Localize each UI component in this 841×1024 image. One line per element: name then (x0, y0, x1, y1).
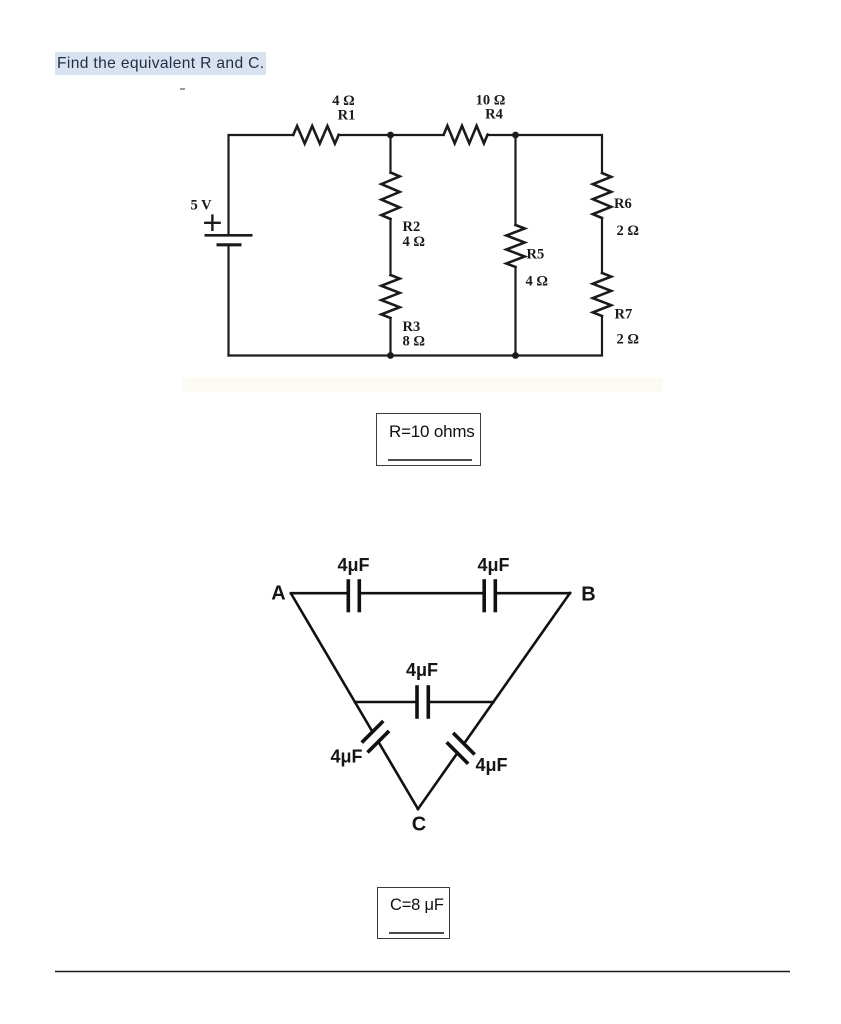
wire R4 to top-right corner (488, 135, 602, 173)
svg-text:R5: R5 (527, 247, 545, 263)
resistor R7 (593, 273, 611, 316)
answer underline R box (388, 459, 472, 461)
wire node A top to R2 (389, 135, 391, 173)
resistor R6 (593, 173, 611, 218)
wire C4 to vertex C (379, 743, 418, 810)
wire R6 to R7 (601, 218, 603, 273)
svg-text:C: C (412, 814, 426, 836)
capacitor C1 plates (348, 581, 359, 611)
svg-text:8 Ω: 8 Ω (403, 334, 426, 350)
battery V1 negative plate (217, 243, 242, 246)
resistor R1 (293, 126, 338, 144)
stray mark (180, 88, 185, 90)
wire C1 to capacitor C2 (361, 592, 483, 595)
junction node bottom right (512, 352, 519, 359)
svg-text:R1: R1 (338, 108, 356, 124)
bottom rule (55, 971, 790, 973)
svg-text:4 Ω: 4 Ω (403, 234, 426, 250)
junction node top right (512, 132, 519, 139)
junction node top middle (387, 132, 394, 139)
svg-text:R7: R7 (615, 307, 633, 323)
capacitor C4 plates (left slant) (363, 722, 388, 751)
wire R5 to bottom node (514, 267, 516, 356)
wire R7 to bottom-right corner (229, 316, 603, 356)
resistor R2 (381, 173, 399, 220)
wire C5 to vertex C (418, 754, 457, 809)
svg-text:4μF: 4μF (406, 660, 438, 680)
resistor R5 (506, 225, 524, 267)
battery V1 positive plate (205, 234, 253, 237)
wire top-left segment (229, 135, 294, 235)
svg-text:4μF: 4μF (337, 555, 369, 575)
wire edge B to C5 (right slant upper) (465, 593, 570, 743)
svg-text:R6: R6 (614, 196, 632, 212)
wire middle left to C3 (355, 701, 415, 704)
wire R2 to R3 (389, 219, 391, 275)
wire A to capacitor C1 (291, 592, 347, 595)
wire R1 to R4 (339, 134, 444, 136)
svg-text:2 Ω: 2 Ω (617, 332, 640, 348)
wire R3 to bottom node (389, 318, 391, 356)
resistor R4 (444, 126, 488, 144)
svg-text:4 Ω: 4 Ω (526, 274, 549, 290)
answer underline C box (389, 932, 444, 934)
svg-text:5 V: 5 V (191, 198, 213, 214)
wire edge A to C3 (left slant upper) (291, 594, 372, 731)
battery plus sign (205, 216, 219, 230)
svg-text:4μF: 4μF (475, 755, 507, 775)
wire battery bottom to bottom-left corner (227, 245, 229, 356)
wire C3 to middle right (430, 701, 493, 704)
svg-text:4μF: 4μF (330, 747, 362, 767)
resistor R3 (381, 275, 399, 318)
svg-text:A: A (271, 583, 285, 605)
svg-text:2 Ω: 2 Ω (617, 223, 640, 239)
capacitor C5 plates (right slant) (448, 734, 474, 762)
svg-text:B: B (581, 584, 595, 606)
wire C2 to B (497, 592, 570, 595)
wire node B top to R5 (514, 135, 516, 225)
faint scan strip under circuit 1 (183, 378, 663, 392)
svg-text:4μF: 4μF (477, 555, 509, 575)
junction node bottom middle (387, 352, 394, 359)
svg-text:R4: R4 (485, 107, 503, 123)
answer box R=10 ohms (376, 413, 481, 466)
title: Find the equivalent R and C. (55, 52, 266, 76)
capacitor C3 plates (middle) (417, 687, 428, 717)
svg-text:R2: R2 (403, 219, 421, 235)
answer box C=8 uF (377, 887, 450, 939)
capacitor C2 plates (484, 581, 495, 611)
